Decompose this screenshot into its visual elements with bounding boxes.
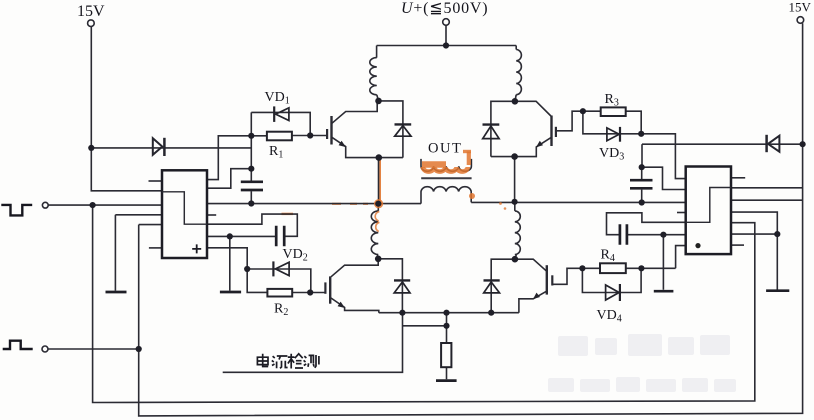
svg-text:15V: 15V — [789, 0, 812, 15]
svg-text:OUT: OUT — [428, 141, 462, 157]
svg-text:U+(≦500V): U+(≦500V) — [401, 0, 488, 17]
svg-text:15V: 15V — [77, 3, 105, 20]
